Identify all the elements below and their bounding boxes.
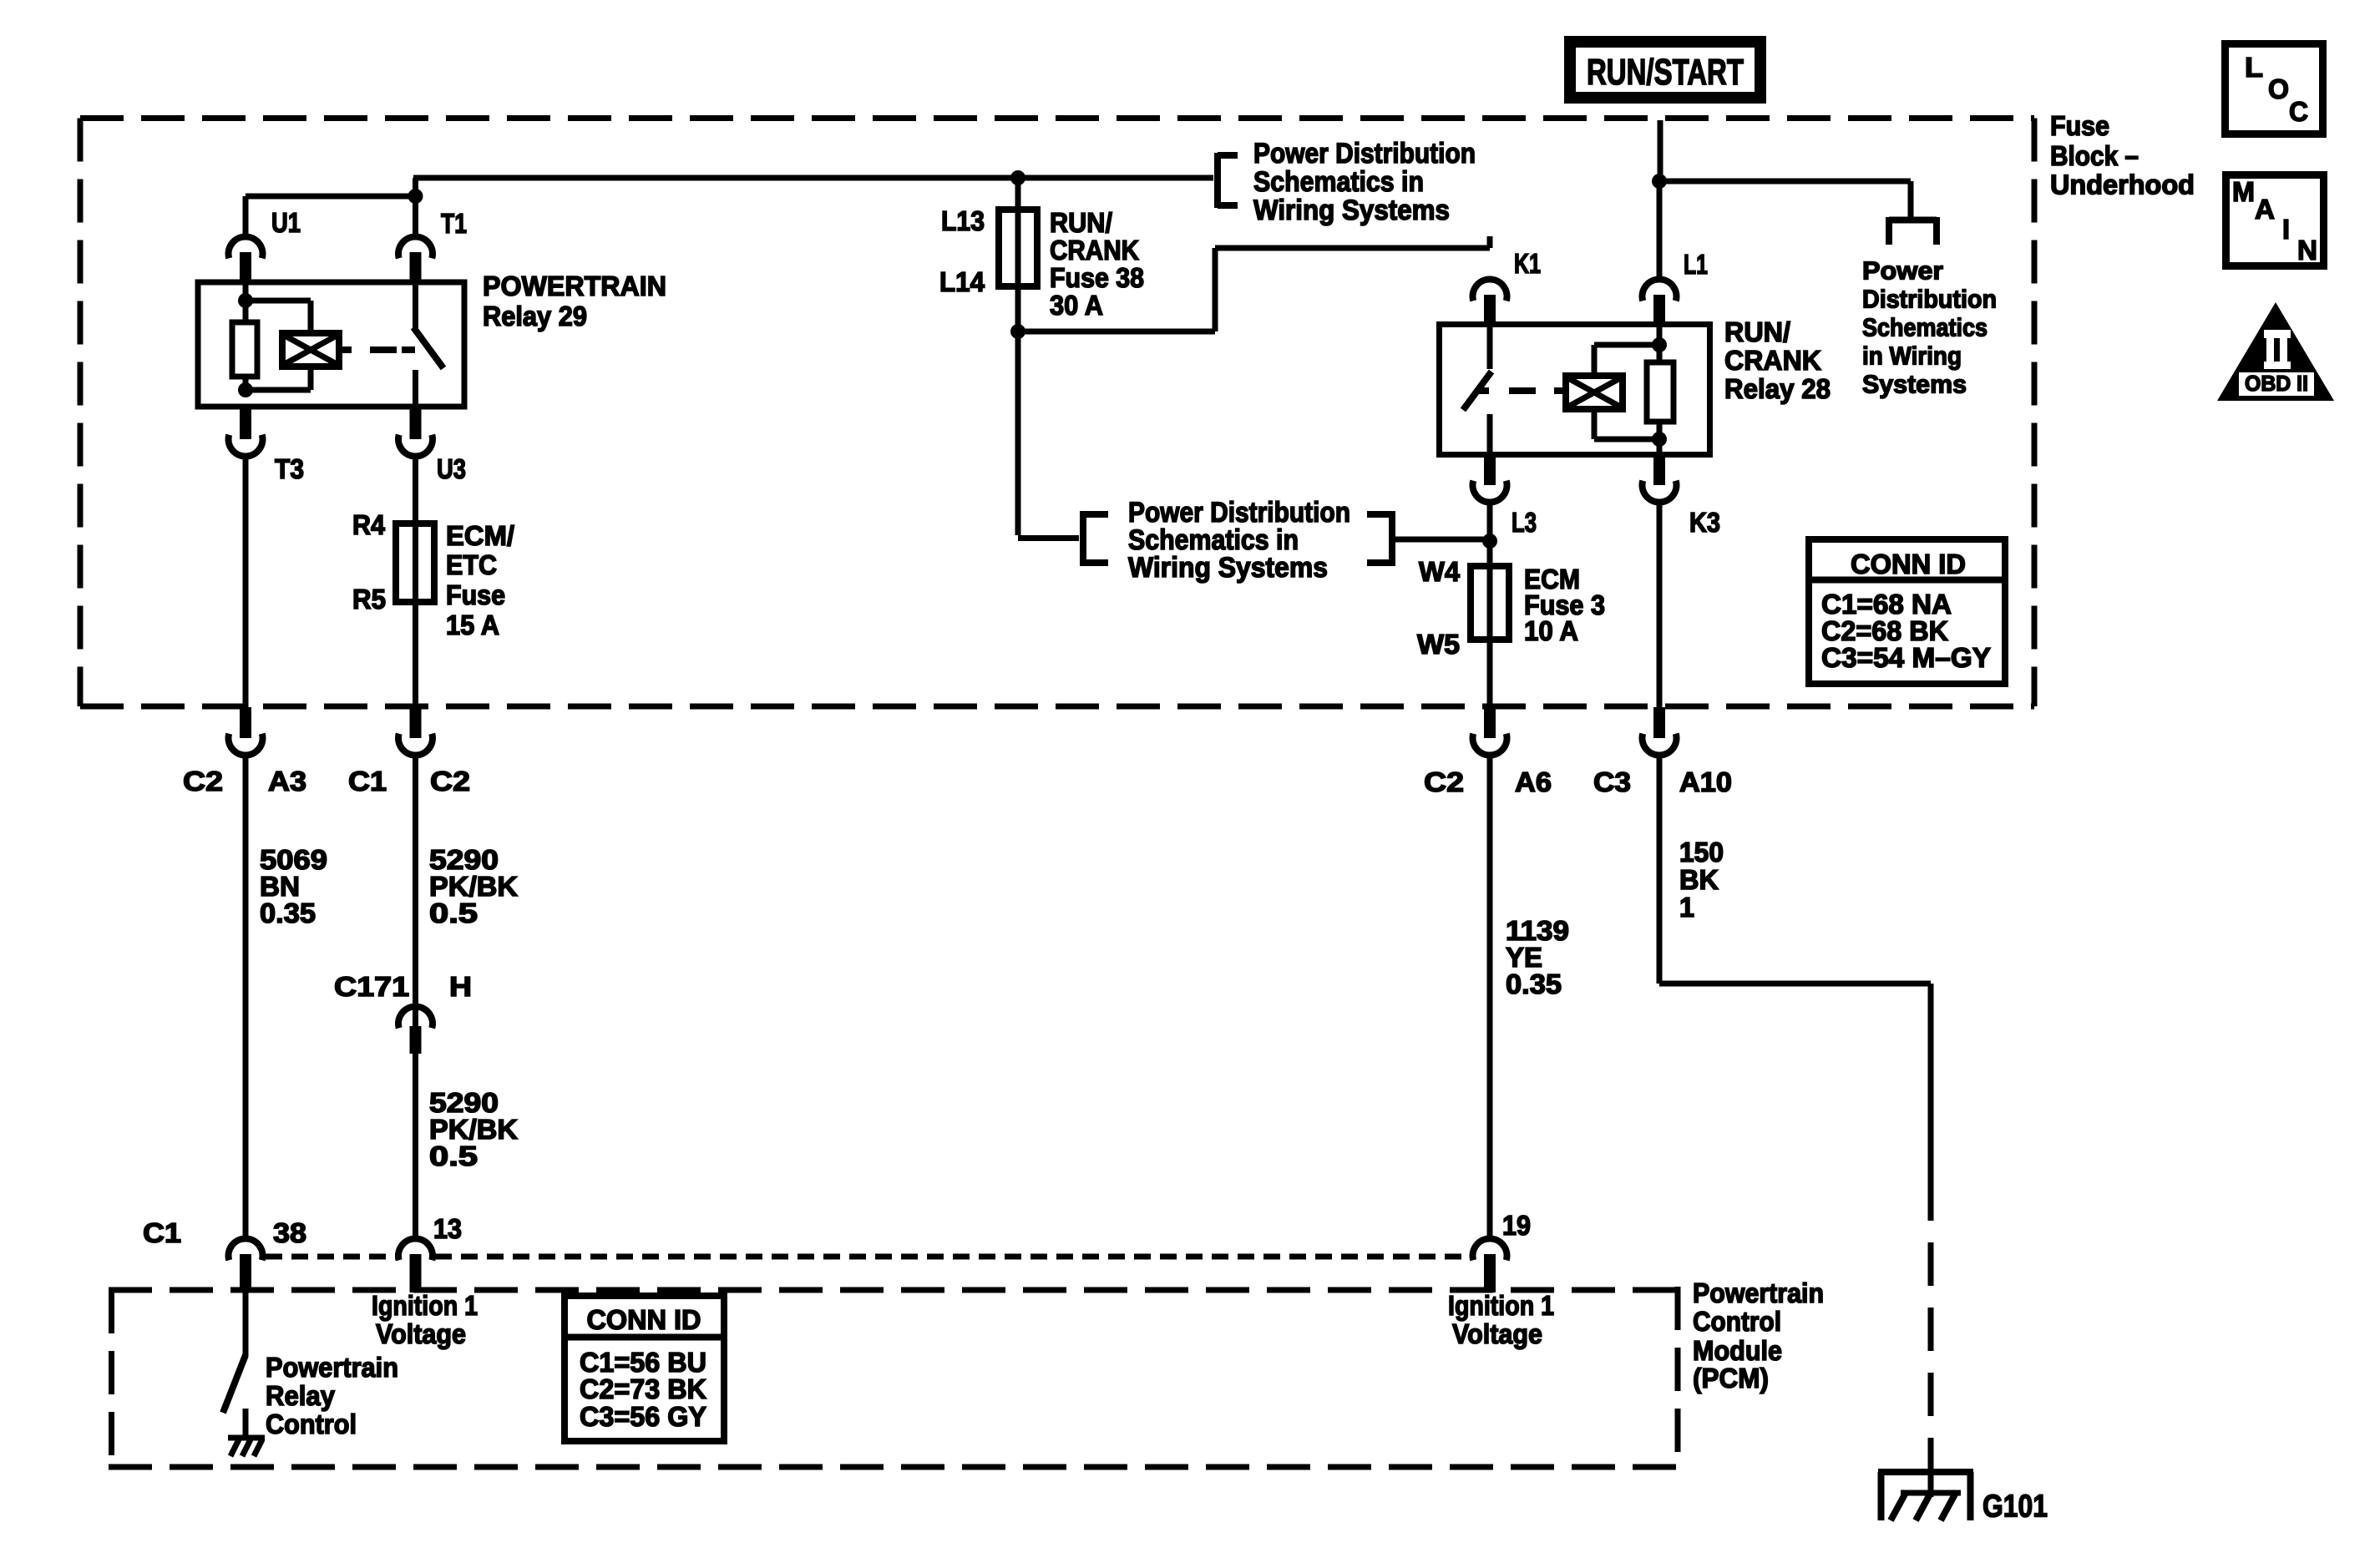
table CONN ID (fuse block) xyxy=(1809,539,2005,684)
label C2 (right) xyxy=(430,766,470,797)
label C1=68 NA xyxy=(1821,589,1952,620)
svg-text:15 A: 15 A xyxy=(446,610,499,640)
label C2 (left of A3) xyxy=(183,766,223,797)
connector 19 (dome) xyxy=(1472,1238,1506,1292)
ignition switch RUN/START box xyxy=(1570,42,1760,98)
switch relay28 lower contact xyxy=(1487,414,1493,454)
label C3=54 M-GY xyxy=(1821,642,1991,673)
svg-text:Voltage: Voltage xyxy=(376,1318,466,1349)
connector L1 (dome) xyxy=(1643,279,1677,325)
label Powertrain Control Module (PCM) xyxy=(1693,1277,1824,1394)
svg-text:T3: T3 xyxy=(275,453,304,484)
svg-text:L3: L3 xyxy=(1512,507,1537,538)
svg-text:C1: C1 xyxy=(143,1217,181,1248)
label L1 xyxy=(1684,249,1708,280)
svg-text:A3: A3 xyxy=(268,766,306,797)
svg-text:L: L xyxy=(2245,52,2263,83)
label C3 (left of A10) xyxy=(1593,766,1631,797)
svg-text:L13: L13 xyxy=(941,205,985,236)
svg-text:Wiring Systems: Wiring Systems xyxy=(1253,195,1450,226)
label Fuse Block - Underhood xyxy=(2050,110,2195,200)
svg-text:CRANK: CRANK xyxy=(1050,235,1139,266)
label U1 xyxy=(271,207,301,238)
dotted harness boundary at PCM (left span) xyxy=(266,1254,396,1260)
svg-text:L14: L14 xyxy=(939,266,985,297)
svg-text:13: 13 xyxy=(433,1213,462,1244)
connector T3 (cup) xyxy=(229,409,263,457)
svg-text:CRANK: CRANK xyxy=(1724,345,1821,376)
connector harness A3 (pin+cup) xyxy=(229,707,263,756)
label T1 xyxy=(441,208,467,239)
svg-text:T1: T1 xyxy=(441,208,467,239)
svg-text:Schematics in: Schematics in xyxy=(1253,166,1424,198)
node relay28 coil bottom junction xyxy=(1652,432,1667,447)
label 5290 PK/BK 0.5 (upper) xyxy=(429,844,518,928)
wire fuse38 bottom xyxy=(1015,286,1021,331)
svg-text:C3: C3 xyxy=(1593,766,1631,797)
svg-text:ETC: ETC xyxy=(446,549,497,580)
svg-text:Ignition 1: Ignition 1 xyxy=(1448,1290,1554,1321)
svg-text:Powertrain: Powertrain xyxy=(1693,1277,1824,1308)
wire T3 down to harness xyxy=(243,458,249,707)
label 5069 BN 0.35 xyxy=(260,844,327,928)
svg-text:BK: BK xyxy=(1679,864,1719,895)
label L O C letters xyxy=(2245,52,2308,127)
svg-text:W5: W5 xyxy=(1417,629,1460,660)
label Power Distribution Schematics in Wiring Systems (middle) xyxy=(1128,497,1350,584)
wire powertrain relay control xyxy=(243,1292,249,1356)
switch PCM relay control blade xyxy=(223,1355,246,1413)
label Ignition 1 Voltage (right) xyxy=(1448,1290,1554,1349)
label 19 xyxy=(1502,1210,1531,1241)
label C1 (left of C2) xyxy=(348,766,387,797)
relay box POWERTRAIN Relay 29 xyxy=(198,282,464,407)
svg-text:Underhood: Underhood xyxy=(2050,169,2195,200)
svg-text:Relay 29: Relay 29 xyxy=(483,301,587,331)
label W5 xyxy=(1417,629,1460,660)
svg-text:C2: C2 xyxy=(1424,766,1464,797)
svg-text:C1: C1 xyxy=(348,766,387,797)
svg-text:C3=56 GY: C3=56 GY xyxy=(580,1401,706,1432)
svg-text:H: H xyxy=(449,971,472,1002)
label CONN ID header (fuse block) xyxy=(1851,549,1966,579)
label Ignition 1 Voltage (left) xyxy=(372,1290,478,1349)
switch relay29 fixed contact xyxy=(413,282,418,330)
off-page reference bracket (middle right) xyxy=(1367,511,1392,566)
svg-text:30 A: 30 A xyxy=(1050,290,1103,321)
svg-text:Systems: Systems xyxy=(1862,370,1967,399)
svg-text:K3: K3 xyxy=(1689,507,1720,538)
connector U1 (dome) xyxy=(229,236,263,282)
label L14 xyxy=(939,266,985,297)
label C1 (left of 38) xyxy=(143,1217,181,1248)
svg-text:C171: C171 xyxy=(334,971,409,1002)
label C171 xyxy=(334,971,409,1002)
connector 38 (dome) xyxy=(229,1238,263,1292)
label W4 xyxy=(1419,556,1461,587)
wire L1 drop to relay xyxy=(1657,181,1663,277)
label RUN/CRANK Fuse 38 30 A xyxy=(1050,207,1144,321)
switch relay29 lower contact xyxy=(413,370,418,409)
dashed actuator link relay29 xyxy=(339,347,415,353)
label ECM Fuse 3 10 A xyxy=(1524,564,1605,646)
label L13 xyxy=(941,205,985,236)
svg-text:Fuse: Fuse xyxy=(446,579,505,610)
svg-text:Fuse 38: Fuse 38 xyxy=(1050,262,1144,293)
connector T1 (dome) xyxy=(398,236,433,282)
svg-text:Wiring Systems: Wiring Systems xyxy=(1128,552,1328,584)
wire U1-T1 link xyxy=(246,194,416,200)
node relay29 coil top junction xyxy=(238,293,253,308)
wire RUN/START feed down to junction xyxy=(1658,120,1663,181)
fuse ECM/ETC Fuse 15A xyxy=(396,524,434,602)
svg-text:38: 38 xyxy=(273,1217,306,1248)
wire U1 pin into relay xyxy=(243,282,249,302)
wire 150 BK dashed segment xyxy=(1928,1242,1934,1471)
label K1 xyxy=(1514,248,1541,279)
label L3 xyxy=(1512,507,1537,538)
label A10 xyxy=(1679,766,1732,797)
wire circuit 150 BK xyxy=(1657,757,1663,984)
fuse block underhood dashed boundary box xyxy=(80,119,2034,707)
OBD II triangle symbol xyxy=(2217,302,2334,401)
ground (PCM internal) xyxy=(228,1438,265,1456)
wire 150 BK jog right xyxy=(1659,984,1931,1221)
wire L3 to junction xyxy=(1487,504,1493,568)
wire relay28 L1 inner xyxy=(1657,325,1663,345)
svg-text:A: A xyxy=(2255,194,2275,225)
svg-text:R5: R5 xyxy=(352,584,386,615)
label CONN ID header (PCM) xyxy=(587,1304,701,1335)
node L3 junction xyxy=(1482,534,1497,549)
label C2=73 BK xyxy=(580,1373,706,1404)
svg-text:Control: Control xyxy=(1693,1306,1781,1337)
coil relay29 (X-box) xyxy=(282,333,339,367)
wire K3 down to harness xyxy=(1657,504,1663,707)
fuse RUN/CRANK Fuse 38 30A xyxy=(999,210,1037,286)
wire circuit 5290 PK/BK lower xyxy=(413,1054,418,1237)
wire PCM switch to ground stub xyxy=(243,1409,249,1438)
switch relay29 blade xyxy=(413,327,443,368)
node fuse38 top junction xyxy=(1010,170,1025,185)
resistor relay28 xyxy=(1647,345,1674,439)
wire circuit 5290 PK/BK upper xyxy=(413,757,418,1029)
label POWERTRAIN Relay 29 xyxy=(483,271,666,331)
connector L3 (cup) xyxy=(1473,454,1507,503)
svg-text:C2: C2 xyxy=(183,766,223,797)
label ECM/ETC Fuse 15 A xyxy=(446,520,514,640)
svg-text:L1: L1 xyxy=(1684,249,1708,280)
node relay29 coil bottom junction xyxy=(238,382,253,397)
svg-text:RUN/: RUN/ xyxy=(1050,207,1112,238)
fuse ECM Fuse 3 10A xyxy=(1471,566,1509,640)
svg-text:C2: C2 xyxy=(430,766,470,797)
svg-text:I: I xyxy=(2282,214,2290,245)
svg-text:C2=73 BK: C2=73 BK xyxy=(580,1373,706,1404)
label K3 xyxy=(1689,507,1720,538)
wire T1 drop xyxy=(413,178,418,235)
svg-text:RUN/: RUN/ xyxy=(1724,316,1790,347)
svg-text:N: N xyxy=(2297,235,2317,266)
label M A I N letters xyxy=(2232,176,2317,266)
connector K1 (dome) xyxy=(1473,279,1507,325)
svg-text:Relay: Relay xyxy=(266,1380,336,1411)
label 38 xyxy=(273,1217,306,1248)
node T1 bus junction xyxy=(408,189,423,204)
label Power Distribution Schematics in Wiring Systems (top center) xyxy=(1253,138,1476,226)
label R5 xyxy=(352,584,386,615)
svg-text:A6: A6 xyxy=(1515,766,1552,797)
svg-text:Block –: Block – xyxy=(2050,140,2139,171)
svg-text:OBD II: OBD II xyxy=(2245,371,2308,396)
svg-text:ECM/: ECM/ xyxy=(446,520,514,551)
svg-text:U1: U1 xyxy=(271,207,301,238)
connector harness A10 (pin+cup) xyxy=(1643,707,1677,756)
label 5290 PK/BK 0.5 (lower) xyxy=(429,1087,518,1171)
switch relay28 blade xyxy=(1463,372,1491,410)
svg-text:Schematics: Schematics xyxy=(1862,313,1988,342)
svg-text:CONN ID: CONN ID xyxy=(587,1304,701,1335)
label A6 xyxy=(1515,766,1552,797)
svg-text:RUN/START: RUN/START xyxy=(1587,52,1744,93)
connector C171 H (dome) xyxy=(398,1006,433,1054)
wire fuse15 down to harness xyxy=(413,602,418,707)
svg-text:10 A: 10 A xyxy=(1524,615,1578,646)
wire main ignition bus xyxy=(413,175,1213,181)
svg-text:POWERTRAIN: POWERTRAIN xyxy=(483,271,666,301)
svg-text:Powertrain: Powertrain xyxy=(266,1352,398,1383)
MAIN reference box xyxy=(2226,175,2324,266)
label Powertrain Relay Control xyxy=(266,1352,398,1439)
svg-text:M: M xyxy=(2232,176,2255,207)
label A3 xyxy=(268,766,306,797)
svg-text:G101: G101 xyxy=(1982,1490,2048,1525)
svg-text:Power Distribution: Power Distribution xyxy=(1253,138,1476,169)
switch relay28 fixed contact xyxy=(1487,325,1493,369)
svg-text:W4: W4 xyxy=(1419,556,1461,587)
wire fuse3 down to harness xyxy=(1487,640,1493,707)
off-page reference bracket (middle left) xyxy=(1083,511,1108,566)
label U3 xyxy=(437,453,466,484)
svg-text:C3=54 M–GY: C3=54 M–GY xyxy=(1821,642,1991,673)
node fuse38 bottom junction xyxy=(1010,324,1025,339)
wire relay28 coil bottom feed xyxy=(1594,409,1659,439)
connector K3 (cup) xyxy=(1643,454,1677,503)
svg-text:0.35: 0.35 xyxy=(1506,969,1562,999)
node junction L1 feed xyxy=(1652,174,1667,189)
wire circuit 1139 YE xyxy=(1487,757,1493,1237)
wire fuse38 junction down to reference xyxy=(1018,331,1079,539)
label RUN/START xyxy=(1587,52,1744,93)
wire fuse38 junction to relay28 K1 xyxy=(1018,236,1490,331)
label T3 xyxy=(275,453,304,484)
svg-text:K1: K1 xyxy=(1514,248,1541,279)
label H xyxy=(449,971,472,1002)
svg-text:Control: Control xyxy=(266,1409,357,1439)
wire fuse38 drop xyxy=(1015,178,1021,210)
svg-text:Ignition 1: Ignition 1 xyxy=(372,1290,478,1321)
svg-text:Distribution: Distribution xyxy=(1862,285,1997,314)
svg-text:Relay 28: Relay 28 xyxy=(1724,373,1831,404)
coil relay28 (X-box) xyxy=(1566,376,1623,409)
svg-text:U3: U3 xyxy=(437,453,466,484)
wire relay28 K3 inner xyxy=(1657,439,1663,454)
label Power Distribution Schematics in Wiring Systems (right) xyxy=(1862,256,1997,399)
relay box RUN/CRANK Relay 28 xyxy=(1440,325,1710,455)
wire circuit 5069 BN xyxy=(243,757,249,1237)
connector harness C2-13 (pin+cup) xyxy=(398,707,433,756)
label R4 xyxy=(352,509,386,540)
svg-text:Module: Module xyxy=(1693,1335,1782,1366)
table CONN ID (PCM) xyxy=(565,1296,724,1441)
svg-text:Power: Power xyxy=(1862,256,1943,286)
svg-text:O: O xyxy=(2268,73,2289,104)
svg-text:19: 19 xyxy=(1502,1210,1531,1241)
svg-text:in Wiring: in Wiring xyxy=(1862,341,1962,371)
wire relay29 coil top feed xyxy=(246,301,311,333)
svg-text:150: 150 xyxy=(1679,837,1724,868)
label 1139 YE 0.35 xyxy=(1506,915,1569,999)
wire relay28 coil top feed xyxy=(1594,345,1659,376)
wire U3 down to fuse xyxy=(413,458,418,524)
connector harness A6 (pin+cup) xyxy=(1472,707,1506,756)
svg-text:0.5: 0.5 xyxy=(429,898,478,928)
off-page reference bracket (top center) xyxy=(1218,153,1238,208)
off-page reference bracket (power distribution top right) xyxy=(1889,217,1937,245)
svg-text:C: C xyxy=(2289,96,2308,127)
label 150 BK 1 xyxy=(1679,837,1724,923)
svg-text:Fuse: Fuse xyxy=(2050,110,2109,141)
label C2 (left of A6) xyxy=(1424,766,1464,797)
label G101 xyxy=(1982,1490,2048,1525)
LOC reference box xyxy=(2226,44,2323,134)
svg-text:0.5: 0.5 xyxy=(429,1141,478,1171)
svg-text:Voltage: Voltage xyxy=(1452,1318,1542,1349)
wire junction to off-page reference xyxy=(1659,181,1911,219)
PCM dashed boundary box xyxy=(109,1287,1678,1467)
svg-text:CONN ID: CONN ID xyxy=(1851,549,1966,579)
wire reference to L3 junction xyxy=(1392,537,1490,543)
dotted harness boundary at PCM (right span) xyxy=(435,1254,1470,1260)
resistor relay29 xyxy=(232,301,257,390)
svg-text:R4: R4 xyxy=(352,509,386,540)
wire U1 drop xyxy=(243,196,249,235)
svg-text:A10: A10 xyxy=(1679,766,1732,797)
ground G101 xyxy=(1878,1471,1973,1520)
wire relay29 coil bottom feed xyxy=(246,367,311,390)
connector U3 (cup) xyxy=(398,409,433,457)
svg-text:0.35: 0.35 xyxy=(260,898,316,928)
label C2=68 BK xyxy=(1821,615,1948,646)
label RUN/CRANK Relay 28 xyxy=(1724,316,1831,404)
svg-text:(PCM): (PCM) xyxy=(1693,1363,1769,1394)
label C1=56 BU xyxy=(580,1347,706,1378)
label C3=56 GY xyxy=(580,1401,706,1432)
dashed actuator link relay28 xyxy=(1476,387,1566,394)
node relay28 coil top junction xyxy=(1652,337,1667,352)
connector 13 (dome) xyxy=(398,1238,433,1292)
svg-text:1: 1 xyxy=(1679,892,1694,923)
label 13 xyxy=(433,1213,462,1244)
